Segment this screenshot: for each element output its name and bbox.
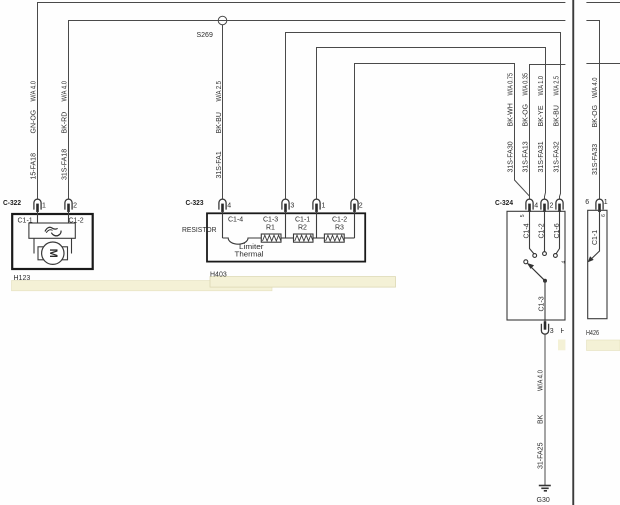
connector C-323 pin 2: [351, 199, 358, 212]
svg-text:H403: H403: [210, 272, 227, 279]
svg-text:BK-BU: BK-BU: [553, 105, 560, 126]
svg-text:Limiter: Limiter: [239, 244, 264, 251]
contact circle 2: [543, 252, 547, 256]
page2: connector pin 1: [596, 199, 603, 212]
svg-text:1: 1: [42, 203, 46, 210]
svg-text:W/A 4.0: W/A 4.0: [30, 81, 37, 102]
wire 15-FA18 continuation page 2: [586, 2, 620, 4]
svg-text:C1-4: C1-4: [228, 217, 243, 224]
wire stub pin1 to fan: [37, 211, 39, 223]
svg-text:4: 4: [534, 203, 538, 210]
svg-text:Thermal: Thermal: [235, 252, 264, 259]
switch arm arrowhead: [527, 263, 534, 269]
blower motor H123 box: [12, 214, 93, 269]
svg-text:C1-1: C1-1: [295, 217, 310, 224]
wire R3 to pin2 stub: [344, 237, 354, 239]
svg-text:BK-OG: BK-OG: [523, 104, 530, 127]
svg-text:31S-FA1: 31S-FA1: [216, 151, 223, 178]
blower switch box C-324: [507, 211, 565, 320]
svg-text:3: 3: [290, 203, 294, 210]
svg-text:BK-BU: BK-BU: [216, 112, 223, 133]
svg-text:BK-YE: BK-YE: [538, 105, 545, 126]
svg-text:W/A 4.0: W/A 4.0: [592, 77, 599, 98]
svg-text:G30: G30: [537, 497, 550, 504]
highlight bar 1: [12, 281, 273, 291]
wire R2 to R3: [313, 237, 324, 239]
resistor R2: [294, 234, 314, 242]
wire stub pin3 down: [285, 211, 287, 238]
wire 31S-FA13 net (y=64): [530, 65, 566, 200]
svg-text:W/A 1.0: W/A 1.0: [538, 76, 545, 96]
connector C-324 pin 2: [541, 199, 548, 212]
svg-text:BK-OG: BK-OG: [592, 105, 599, 128]
svg-text:C-323: C-323: [186, 200, 204, 207]
svg-text:31S-FA32: 31S-FA32: [553, 141, 560, 172]
wire pin2 to contact: [544, 211, 546, 252]
connector C-322 pin 1: [34, 199, 41, 212]
connector C-324 pin 6: [556, 199, 563, 212]
svg-text:C1-3: C1-3: [538, 296, 545, 311]
wire 15-FA18 GN-OG horizontal feed: [38, 3, 566, 200]
svg-text:R1: R1: [266, 225, 275, 232]
svg-text:2: 2: [550, 203, 554, 210]
motor bracket left: [38, 247, 45, 260]
switch common dot: [543, 279, 547, 283]
wire 31-FA25 BK to ground: [544, 334, 546, 485]
svg-text:15-FA18: 15-FA18: [30, 153, 37, 180]
fan glyph: [45, 227, 58, 231]
highlight fragment page1: [558, 340, 565, 351]
svg-text:BK-WH: BK-WH: [507, 103, 514, 126]
connector C-324 pin 4: [526, 199, 533, 212]
svg-text:31S-FA18: 31S-FA18: [61, 149, 68, 180]
wire stub pin4 down: [222, 211, 224, 238]
svg-text:W/A 4.0: W/A 4.0: [538, 370, 545, 391]
svg-text:2: 2: [73, 203, 77, 210]
svg-text:R2: R2: [298, 225, 307, 232]
label H (clipped at page edge): [561, 328, 566, 335]
svg-text:1: 1: [604, 199, 608, 206]
wire 31S-FA33 BK-OG page 2: [586, 21, 599, 200]
wire 31S-FA30 net (y=63.4): [355, 64, 530, 200]
contact circle 3: [554, 254, 558, 258]
svg-text:C1-2: C1-2: [332, 217, 347, 224]
resistor R1: [261, 234, 281, 242]
svg-text:2: 2: [359, 203, 363, 210]
svg-text:31S-FA33: 31S-FA33: [592, 144, 599, 175]
svg-text:W/A 4.0: W/A 4.0: [61, 81, 68, 102]
motor mount right: [71, 238, 73, 253]
svg-text:C1-3: C1-3: [263, 217, 278, 224]
svg-text:31S-FA31: 31S-FA31: [538, 141, 545, 172]
wire R1 to R2: [281, 237, 294, 239]
svg-text:31S-FA30: 31S-FA30: [507, 141, 514, 172]
switch pivot circle: [524, 260, 528, 264]
svg-text:6: 6: [601, 214, 607, 217]
page2: switch box H426: [588, 210, 607, 318]
svg-text:BK: BK: [538, 414, 545, 424]
svg-text:M: M: [47, 249, 59, 258]
connector C-323 pin 3: [282, 199, 289, 212]
switch arm: [528, 264, 545, 281]
page2 switch wire: [590, 211, 599, 260]
motor bracket right: [60, 247, 67, 260]
wire 31S-FA32 net (y=33): [286, 33, 561, 200]
wire pin6 to contact: [556, 211, 560, 254]
wire stub pin2 to fan: [68, 211, 70, 223]
svg-text:C-322: C-322: [3, 200, 21, 207]
svg-text:1: 1: [322, 203, 326, 210]
svg-text:4: 4: [227, 203, 231, 210]
wire stub pin1 down: [316, 211, 318, 238]
connector C-323 pin 1: [313, 199, 320, 212]
svg-text:W/A 2.5: W/A 2.5: [553, 76, 560, 96]
thermal limiter: [223, 238, 262, 244]
motor mount left: [33, 238, 35, 253]
svg-text:31-FA25: 31-FA25: [538, 442, 545, 469]
svg-text:H426: H426: [586, 330, 599, 337]
svg-text:C-324: C-324: [495, 200, 513, 207]
resistor block H403 box: [207, 213, 365, 261]
wire 31S-FA18 BK-RD horizontal with S269: [69, 21, 566, 200]
wire common down: [544, 281, 546, 324]
wire 31S-FA31 net (y=47.6): [317, 48, 546, 200]
svg-text:31S-FA13: 31S-FA13: [523, 141, 530, 172]
svg-text:GN-OG: GN-OG: [30, 110, 37, 134]
wire 31S-FA1 BK-BU from S269 down: [222, 25, 224, 200]
resistor R3: [324, 234, 344, 242]
splice S269: [218, 16, 227, 25]
svg-text:3: 3: [550, 328, 554, 335]
connector C-323 pin 4: [219, 199, 226, 212]
svg-text:RESISTOR: RESISTOR: [182, 227, 217, 234]
wire pin4 to contact: [530, 211, 535, 254]
page2 switch arrowhead: [588, 256, 594, 262]
svg-text:W/A 2.5: W/A 2.5: [216, 81, 223, 102]
svg-text:C1-1: C1-1: [592, 230, 599, 245]
connector C-324 pin 3 (bottom): [541, 321, 548, 334]
svg-text:R3: R3: [335, 225, 344, 232]
page divider: [572, 0, 574, 505]
svg-text:W/A 0.75: W/A 0.75: [507, 73, 514, 96]
svg-text:W/A 0.35: W/A 0.35: [523, 73, 530, 96]
svg-text:4: 4: [561, 261, 567, 264]
ground G30: [539, 486, 551, 491]
wire 31S-FA13 continuation page 2: [586, 63, 620, 65]
connector C-322 pin 2: [65, 199, 72, 212]
svg-text:S269: S269: [197, 32, 213, 39]
motor M circle: [42, 242, 64, 264]
svg-text:BK-RD: BK-RD: [61, 112, 68, 134]
svg-text:5: 5: [520, 214, 526, 217]
fan housing: [29, 223, 75, 238]
contact circle 1: [533, 254, 537, 258]
highlight bar 2: [210, 277, 396, 288]
page2 highlight bar: [587, 340, 620, 351]
wire stub pin2 down: [354, 211, 356, 238]
svg-text:6: 6: [585, 199, 589, 206]
